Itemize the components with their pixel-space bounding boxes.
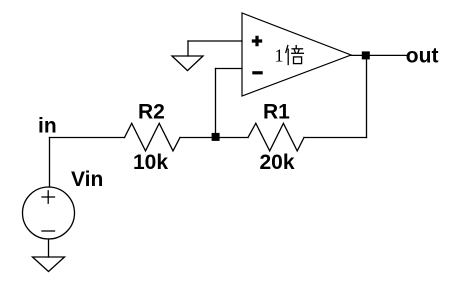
wire: R2 to node A — [180, 137, 216, 139]
svg-text:out: out — [406, 44, 439, 67]
op-amp U1 — [242, 13, 351, 96]
svg-text:in: in — [38, 115, 57, 138]
wire: in to R2 — [50, 137, 125, 139]
wire: feedback vertical — [215, 69, 217, 138]
wire: input vertical to Vin — [49, 138, 51, 188]
svg-text:10k: 10k — [133, 151, 168, 174]
svg-text:R1: R1 — [263, 101, 290, 124]
ground (Vin) — [33, 257, 65, 272]
wire: right vertical to output node — [366, 55, 368, 137]
resistor R1 — [248, 123, 304, 151]
wire: noninverting (+) input — [188, 40, 242, 42]
op-amp + input label — [252, 36, 262, 46]
wire: Vin to ground — [48, 239, 50, 257]
node B (output) — [362, 51, 370, 59]
ground (op-amp + input) — [187, 41, 189, 56]
wire: node A to R1 — [216, 137, 249, 139]
svg-text:20k: 20k — [260, 151, 295, 174]
voltage source Vin — [23, 187, 75, 239]
op-amp gain label: character 倍 — [286, 46, 304, 65]
wire: inverting (-) input — [216, 68, 243, 70]
resistor R2 — [125, 123, 181, 151]
plus sign inside Vin — [42, 196, 55, 198]
svg-text:1: 1 — [275, 46, 284, 66]
node A (junction R2/R1/feedback) — [212, 133, 220, 141]
minus sign inside Vin — [42, 230, 55, 232]
wire: R1 to right corner — [304, 137, 367, 139]
svg-text:R2: R2 — [138, 101, 165, 124]
svg-text:Vin: Vin — [71, 168, 103, 191]
wire: op-amp output to out — [351, 54, 408, 56]
op-amp - input label — [252, 71, 262, 74]
